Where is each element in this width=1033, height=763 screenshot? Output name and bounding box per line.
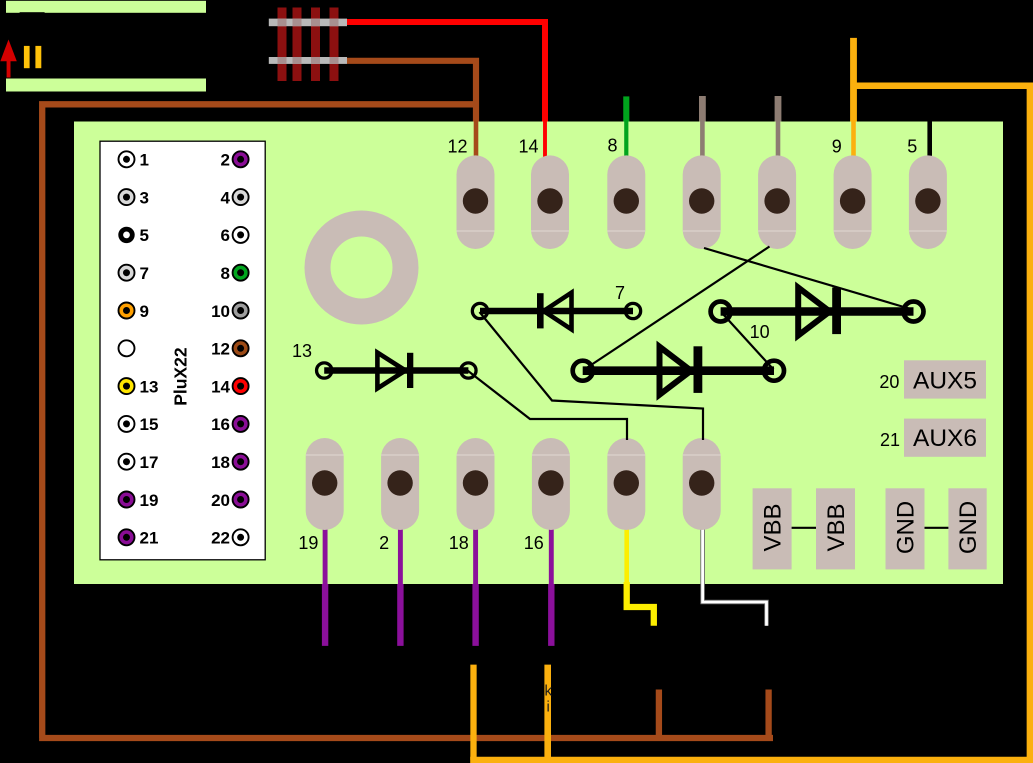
- white wire core: [703, 520, 767, 626]
- svg-text:19: 19: [298, 533, 318, 553]
- svg-text:8: 8: [607, 136, 617, 156]
- net line diode13 to pad yellow: [468, 371, 628, 441]
- svg-text:19: 19: [140, 491, 159, 510]
- pin 5: [118, 226, 149, 245]
- svg-text:PluX22: PluX22: [171, 347, 191, 406]
- pin 10: [211, 302, 249, 321]
- svg-text:10: 10: [750, 322, 770, 342]
- rail top bar: [6, 1, 206, 13]
- bottom pad seams: [306, 454, 721, 456]
- pin 21: [119, 529, 159, 548]
- svg-text:18: 18: [449, 533, 469, 553]
- brown wire over board: [474, 122, 479, 201]
- pin 4: [221, 188, 249, 207]
- net line pad3 to thick diode right: [704, 248, 909, 309]
- svg-text:5: 5: [907, 136, 917, 156]
- pin 20: [211, 491, 249, 510]
- gray stub wire b: [775, 96, 782, 122]
- pin 18: [211, 453, 249, 472]
- svg-text:VBB: VBB: [823, 503, 850, 551]
- svg-text:9: 9: [140, 302, 149, 321]
- svg-text:AUX5: AUX5: [913, 368, 977, 395]
- svg-text:6: 6: [221, 226, 230, 245]
- yellow wire: [624, 520, 629, 584]
- pin 13: [119, 377, 159, 396]
- svg-text:12: 12: [211, 340, 230, 359]
- top pad holes: [463, 188, 941, 213]
- top pad labels: [447, 136, 917, 157]
- svg-text:15: 15: [140, 415, 159, 434]
- orange stub b: [544, 665, 551, 760]
- orange wire over board: [851, 122, 856, 201]
- GND pad 2: [948, 488, 986, 569]
- red wire track to pad 14: [347, 22, 545, 122]
- svg-text:12: 12: [447, 136, 467, 156]
- pin 19: [119, 491, 159, 510]
- svg-text:9: 9: [832, 136, 842, 156]
- pin 16: [211, 415, 249, 434]
- svg-text:14: 14: [211, 377, 230, 396]
- net line pad4 to thick diode left: [585, 247, 770, 370]
- svg-text:4: 4: [221, 188, 231, 207]
- bottom solder pads: [306, 438, 721, 530]
- black stub pad 5: [927, 122, 932, 171]
- svg-text:21: 21: [140, 529, 159, 548]
- pin 6: [221, 226, 249, 245]
- svg-text:GND: GND: [893, 501, 920, 554]
- svg-text:5: 5: [140, 226, 149, 245]
- top pad seams: [457, 230, 947, 232]
- pin 17: [119, 453, 159, 472]
- svg-text:17: 17: [140, 453, 159, 472]
- green board: [74, 122, 1003, 585]
- svg-text:GND: GND: [955, 501, 982, 554]
- orange wire pad 9 riser: [850, 38, 857, 122]
- svg-text:8: 8: [221, 264, 230, 283]
- rail crossing shading: [278, 19, 339, 64]
- orange wire right edge loop: [470, 86, 1033, 760]
- pin 15: [119, 415, 159, 434]
- svg-text:13: 13: [140, 377, 159, 396]
- red wire over board: [543, 122, 547, 201]
- pin 11 index hole: [119, 340, 135, 356]
- track ties: [278, 8, 339, 82]
- svg-text:VBB: VBB: [760, 503, 787, 551]
- brown wire track to pad 12: [347, 58, 476, 122]
- svg-text:AUX6: AUX6: [913, 425, 977, 452]
- svg-text:16: 16: [524, 533, 544, 553]
- white wire outline: [703, 520, 767, 626]
- svg-text:16: 16: [211, 415, 230, 434]
- isolation marker bars: [24, 46, 30, 68]
- pin 3: [119, 188, 149, 207]
- pin 22: [211, 529, 249, 548]
- thick diode bottom: [573, 346, 784, 394]
- pin 1: [119, 151, 149, 170]
- net line diode7 to pad white: [480, 312, 704, 440]
- svg-text:7: 7: [140, 264, 149, 283]
- GND link: [925, 527, 949, 529]
- purple wire pin 18: [473, 520, 478, 584]
- pin 7: [119, 264, 149, 283]
- diode D7: [472, 293, 640, 330]
- svg-text:1: 1: [140, 151, 149, 170]
- thick diode top: [711, 288, 924, 336]
- brown wire left loop: [39, 104, 773, 738]
- svg-text:k: k: [545, 683, 553, 700]
- VBB pad 1: [753, 488, 792, 569]
- green wire pad 8: [623, 96, 629, 121]
- GND pad 1: [886, 488, 925, 569]
- top solder pads: [457, 155, 947, 249]
- pin 2: [221, 151, 249, 170]
- AUX6 box: [904, 419, 986, 457]
- svg-text:18: 18: [211, 453, 230, 472]
- svg-text:20: 20: [211, 491, 230, 510]
- purple wire pin 16: [549, 520, 554, 584]
- svg-text:20: 20: [879, 372, 899, 392]
- rail bottom bar: [6, 79, 206, 92]
- svg-text:22: 22: [211, 529, 230, 548]
- track rails: [269, 19, 347, 27]
- VBB link: [792, 527, 816, 529]
- bottom pad holes: [312, 470, 714, 495]
- svg-text:2: 2: [379, 533, 389, 553]
- svg-text:3: 3: [140, 188, 149, 207]
- pin 12: [211, 340, 249, 359]
- direction arrow: [0, 40, 17, 78]
- mounting ring: [318, 224, 406, 312]
- gray stub wire a: [699, 96, 706, 122]
- diode D13: [317, 353, 476, 389]
- pin 14: [211, 377, 249, 396]
- svg-text:2: 2: [221, 151, 230, 170]
- rail gap notch: [20, 12, 45, 15]
- svg-text:i: i: [547, 699, 550, 716]
- purple wire pin 2: [398, 520, 403, 584]
- net line 10: [722, 313, 774, 370]
- brown stub mid: [656, 690, 662, 739]
- orange stub a: [470, 665, 476, 760]
- purple wire pin 19: [323, 520, 328, 584]
- svg-text:21: 21: [880, 430, 900, 450]
- svg-text:7: 7: [615, 283, 625, 303]
- VBB pad 2: [816, 488, 855, 569]
- svg-text:13: 13: [292, 341, 312, 361]
- bottom pad labels: [298, 533, 543, 553]
- svg-text:14: 14: [518, 136, 538, 156]
- pin 8: [221, 264, 249, 283]
- pin 9: [119, 302, 149, 321]
- svg-text:10: 10: [211, 302, 230, 321]
- pin list panel: [100, 141, 265, 560]
- AUX5 box: [904, 360, 986, 398]
- brown stub right: [765, 690, 771, 739]
